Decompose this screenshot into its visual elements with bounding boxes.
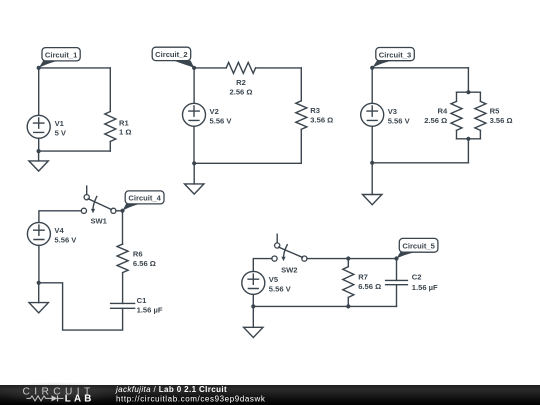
- svg-text:5.56 V: 5.56 V: [54, 236, 77, 245]
- wire R4 bottom stub: [456, 130, 458, 139]
- svg-text:R1: R1: [119, 118, 129, 127]
- wire R7 bottom lead: [347, 297, 349, 306]
- wire V3 bottom lead: [371, 126, 373, 163]
- wire parallel top bar: [457, 91, 481, 93]
- svg-text:5.56 V: 5.56 V: [269, 285, 292, 294]
- ground circuit 3: [363, 163, 382, 205]
- svg-text:V2: V2: [210, 107, 219, 116]
- wire right side upper lead to R1: [109, 68, 111, 112]
- svg-text:6.56 Ω: 6.56 Ω: [358, 282, 381, 291]
- svg-text:R4: R4: [437, 107, 447, 116]
- wire R1 bottom lead: [109, 142, 111, 152]
- wire R3 bottom lead: [300, 129, 302, 163]
- svg-text:3.56 Ω: 3.56 Ω: [310, 116, 333, 125]
- svg-text:Circuit_5: Circuit_5: [402, 241, 435, 250]
- node R7 top junction dot: [346, 256, 350, 260]
- svg-text:http://circuitlab.com/ces93ep9: http://circuitlab.com/ces93ep9daswk: [116, 395, 266, 404]
- wire R6 to C1: [122, 273, 124, 304]
- wire left side from node to V2: [193, 68, 195, 103]
- svg-text:5.56 V: 5.56 V: [210, 116, 233, 125]
- voltage source V5: [242, 271, 292, 294]
- svg-text:V3: V3: [388, 107, 397, 116]
- svg-text:3.56 Ω: 3.56 Ω: [490, 116, 513, 125]
- svg-text:5.56 V: 5.56 V: [388, 116, 411, 125]
- svg-text:Circuit_3: Circuit_3: [379, 50, 412, 59]
- node label Circuit_4: [123, 191, 165, 211]
- node E1 junction dot: [394, 256, 398, 260]
- svg-text:R5: R5: [490, 107, 500, 116]
- wire C1 bottom lead and return path: [39, 283, 123, 330]
- resistor R6: [117, 244, 156, 273]
- node A1 junction dot: [37, 66, 41, 70]
- node label Circuit_1: [39, 48, 80, 68]
- node circuit 2 bottom junction dot: [192, 161, 196, 165]
- resistor R5: [475, 101, 513, 130]
- voltage source V2: [183, 103, 233, 126]
- node parallel top junction dot: [466, 90, 470, 94]
- wire V5 bottom lead: [252, 294, 254, 306]
- wire right side upper lead to R3: [300, 68, 302, 101]
- node circuit 5 bottom junction dot: [251, 304, 255, 308]
- svg-text:SW2: SW2: [281, 265, 297, 274]
- svg-text:Circuit_4: Circuit_4: [128, 194, 161, 203]
- ground circuit 2: [185, 163, 204, 194]
- svg-text:C2: C2: [412, 273, 422, 282]
- voltage source V3: [361, 103, 411, 126]
- node parallel bottom junction dot: [466, 137, 470, 141]
- svg-text:1 Ω: 1 Ω: [119, 128, 131, 137]
- wire from switch left terminal to V4: [39, 211, 81, 223]
- voltage source V4: [27, 222, 77, 245]
- node circuit 1 bottom junction dot: [37, 149, 41, 153]
- title bar background: [0, 382, 540, 405]
- wire left side from node to V1: [38, 68, 40, 115]
- wire from node to R2: [194, 67, 226, 69]
- svg-text:1.56 µF: 1.56 µF: [137, 306, 163, 315]
- node C1 junction dot: [370, 66, 374, 70]
- resistor R7: [343, 267, 381, 298]
- svg-text:V5: V5: [269, 275, 279, 284]
- wire C2 bottom lead: [396, 285, 398, 307]
- wire parallel bottom bar: [457, 138, 481, 140]
- capacitor C2: [386, 273, 438, 293]
- wire from switch left terminal to V5: [253, 259, 272, 272]
- node label Circuit_3: [372, 48, 414, 68]
- resistor R1: [105, 112, 132, 142]
- wire top of circuit 3: [372, 67, 468, 69]
- svg-text:R2: R2: [236, 78, 246, 87]
- svg-text:2.56 Ω: 2.56 Ω: [230, 87, 253, 96]
- wire bottom of circuit 3: [372, 162, 468, 164]
- svg-text:1.56 µF: 1.56 µF: [412, 283, 438, 292]
- svg-text:2.56 Ω: 2.56 Ω: [424, 116, 447, 125]
- ground circuit 1: [29, 151, 48, 171]
- svg-text:Circuit_1: Circuit_1: [45, 50, 78, 59]
- wire switch right terminal to node: [116, 210, 123, 212]
- wire R5 bottom stub: [479, 130, 481, 139]
- switch SW1: [81, 186, 116, 226]
- svg-text:Circuit_2: Circuit_2: [155, 50, 188, 59]
- node B1 junction dot: [192, 66, 196, 70]
- svg-text:jackfujita / Lab 0 2.1 CIrcuit: jackfujita / Lab 0 2.1 CIrcuit: [115, 385, 227, 394]
- wire R7 top lead: [347, 259, 349, 267]
- ground circuit 4: [29, 283, 48, 313]
- svg-text:R3: R3: [310, 106, 320, 115]
- svg-text:R6: R6: [133, 249, 143, 258]
- wire switch right terminal to top right node: [307, 258, 397, 260]
- node circuit 4 bottom junction dot: [37, 281, 41, 285]
- wire R4 top stub: [456, 92, 458, 101]
- wire V1 bottom lead: [38, 138, 40, 151]
- svg-text:V1: V1: [55, 119, 65, 128]
- resistor R2: [226, 62, 255, 96]
- resistor R4: [424, 101, 462, 130]
- wire R5 top stub: [479, 92, 481, 101]
- wire bottom of circuit 2: [194, 162, 301, 164]
- switch SW2: [272, 234, 307, 274]
- wire C2 top lead: [396, 259, 398, 281]
- svg-text:C1: C1: [137, 296, 147, 305]
- wire V4 bottom lead: [38, 245, 40, 282]
- svg-text:V4: V4: [54, 226, 64, 235]
- capacitor C1: [111, 296, 163, 315]
- svg-text:6.56 Ω: 6.56 Ω: [133, 259, 156, 268]
- resistor R3: [296, 101, 333, 130]
- node label Circuit_2: [152, 47, 194, 67]
- wire down to parallel pair: [467, 68, 469, 92]
- svg-text:SW1: SW1: [90, 217, 107, 226]
- node label Circuit_5: [396, 238, 438, 258]
- node R7 bottom junction dot: [346, 304, 350, 308]
- wire from node down to R6: [122, 211, 124, 244]
- wire bottom of circuit 5: [253, 305, 396, 307]
- node circuit 3 bottom junction dot: [370, 161, 374, 165]
- wire V2 bottom lead: [193, 126, 195, 163]
- voltage source V1: [27, 115, 67, 138]
- svg-text:R7: R7: [358, 273, 368, 282]
- wire top of circuit 1: [39, 67, 111, 69]
- wire R2 to top right corner: [256, 67, 302, 69]
- wire down from parallel pair: [467, 139, 469, 163]
- wire left side from node to V3: [371, 68, 373, 104]
- svg-text:5 V: 5 V: [55, 128, 67, 137]
- ground circuit 5: [244, 306, 263, 337]
- svg-text:LAB: LAB: [65, 394, 95, 405]
- wire bottom of circuit 1: [39, 150, 111, 152]
- node D1 junction dot: [120, 209, 124, 213]
- CircuitLab logo resistor squiggle and diode: [27, 395, 64, 401]
